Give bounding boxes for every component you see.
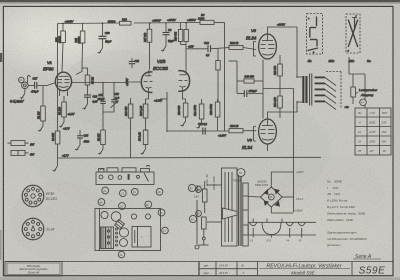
resistor R22 [229, 41, 256, 50]
resistor R15 [75, 24, 88, 69]
B+ rail wire [58, 23, 225, 132]
wire coupling node down [102, 83, 104, 95]
title strip top line [5, 261, 393, 263]
wire +320V vertical [293, 89, 295, 213]
notes text block [326, 180, 368, 248]
dashed box 4ohm option [307, 14, 323, 55]
wire bridge top [271, 172, 293, 187]
V6 screen bracket [254, 127, 257, 142]
tube V5 internals [261, 34, 275, 55]
ground under R21 [197, 123, 202, 129]
node A7 circle [360, 99, 367, 106]
resistor R4 on x57 [52, 131, 60, 144]
resistor R14 [175, 23, 189, 71]
ground under jack [20, 94, 25, 100]
wire splitter top [160, 98, 167, 100]
junction dots [62, 22, 298, 132]
wire bridge bottom [271, 207, 293, 213]
wire x57 drop [57, 24, 59, 159]
tube V2/3 label [153, 59, 168, 71]
wire V1 screen bend [76, 68, 82, 75]
wire primary leads [297, 77, 302, 102]
ground under R3 [59, 122, 64, 128]
switch S1 [199, 217, 209, 245]
ground bus divider [58, 156, 321, 159]
mains entry funnel [223, 208, 238, 219]
wire V3 cathode to R20 [183, 95, 186, 103]
transformer TR core [239, 170, 241, 246]
resistor R20 [178, 103, 188, 121]
heater bus bottom [248, 234, 316, 236]
tube V1 label [43, 60, 54, 72]
wire speaker output top [349, 57, 365, 108]
capacitor C11 [129, 58, 140, 68]
resistor R18 [125, 98, 133, 158]
ref circle A4 right [189, 215, 196, 222]
ref circle B7 with text [188, 184, 202, 191]
wire feedback horizontal [263, 88, 294, 90]
chassis main box [95, 209, 161, 251]
tube V2 half envelope [141, 72, 152, 93]
option labels row [308, 59, 372, 63]
resistor R23 [210, 99, 220, 131]
resistor R3 cathode [59, 96, 75, 122]
fuse F1 [202, 181, 207, 213]
tube V6 label [242, 138, 253, 151]
heater ticks [253, 228, 302, 238]
heater bus top [248, 221, 316, 223]
resistor R40 cathode [237, 76, 263, 84]
input jack A1 [19, 75, 31, 93]
wire cathode RC left link [229, 61, 238, 94]
tube V2 internals [144, 70, 153, 96]
trimmer capacitor C14 [98, 83, 106, 131]
resistor R1 [38, 86, 46, 127]
chassis ref circles row2 [98, 199, 165, 216]
wire V1 plate to coupling [72, 82, 103, 84]
ref circle A6 [196, 211, 202, 217]
wire cathode link V5-V6 [262, 60, 264, 119]
resistor R9 [198, 13, 214, 25]
wire V5 plate to +300V [268, 27, 298, 34]
legend resistor 1W [8, 141, 35, 147]
ground under C18 [83, 104, 88, 110]
dashed option link vertical [340, 72, 342, 109]
heater labels [250, 240, 302, 243]
wire bridge left input [248, 196, 260, 199]
chassis transformer right [132, 227, 151, 248]
ground under C15 [75, 145, 80, 151]
resistor R17 [144, 23, 152, 69]
transformer core [310, 74, 312, 106]
dashed option link [326, 71, 341, 73]
tube V3 half envelope [178, 71, 189, 92]
chassis holes column [116, 228, 118, 246]
resistor R21 [194, 99, 204, 123]
chassis transformer left [101, 227, 114, 249]
chassis sockets top view [101, 211, 151, 229]
resistor R19b [139, 130, 148, 149]
wire bridge right output [282, 196, 293, 198]
tube V1 internals [58, 76, 70, 96]
transformer secondary bars with taps [315, 77, 336, 110]
tube V5 label [246, 28, 257, 41]
socket label EF80 ECC83 [46, 192, 57, 201]
left scan edge mark [0, 53, 2, 62]
label Lautsprecher Ausgang [356, 88, 378, 97]
dashed box 25ohm option [346, 14, 360, 53]
resistor R24 [229, 124, 256, 133]
wire V6 cathode [267, 144, 269, 151]
stamp box Willi Studer [5, 262, 62, 277]
wire splitter bus [167, 92, 229, 131]
tube socket EF80/ECC83 [22, 185, 45, 207]
capacitor C17 [28, 77, 55, 94]
capacitor C13 [198, 122, 208, 135]
tube V3 internals [179, 70, 188, 95]
capacitor C12 [186, 41, 229, 102]
capacitor C10 [99, 23, 112, 48]
resistor R12 [120, 17, 132, 25]
chassis ref circles row1 [102, 187, 163, 197]
ground stub below bus [53, 158, 58, 172]
heater loop V2-3 wide [262, 222, 281, 234]
wire +300V down to transformer [296, 27, 298, 77]
resistor R67 output [351, 74, 356, 104]
mains plug board [207, 168, 237, 246]
ground under R19b [141, 149, 146, 155]
tube socket EL34 [22, 218, 45, 241]
capacitor C18 [84, 68, 98, 104]
resistor R19 [140, 104, 148, 130]
title box [258, 262, 351, 277]
heater top stubs [253, 219, 282, 223]
revision table [199, 262, 258, 277]
tube V6 internals [261, 119, 275, 140]
wire V2 cathode to R19 [146, 95, 149, 104]
V5 screen bracket [254, 42, 257, 57]
ground under R2 [98, 149, 103, 155]
tube V6 EL34 envelope [259, 119, 277, 144]
ground under R20 [181, 121, 186, 127]
wire to V2 grid [114, 81, 141, 84]
chassis electrolytics circles [119, 228, 128, 247]
capacitor C40 cathode [237, 90, 263, 97]
feedback divider R25 R26 [274, 55, 282, 118]
top scan edge dark strip [0, 0, 400, 2]
chassis ref circles bottom [118, 227, 168, 258]
resistor R16 [56, 24, 66, 73]
bottom scan edge [0, 277, 400, 280]
scan grain overlay [0, 0, 1, 1]
transformer T primary bars [302, 76, 307, 103]
ground under C10 [98, 48, 103, 54]
chassis rear strip [96, 166, 154, 185]
heater loop small 3 [298, 222, 305, 226]
ground under R1 [38, 126, 43, 132]
legend resistor 5W [11, 150, 35, 156]
label 300/250 [255, 179, 269, 187]
Serie A label [353, 254, 381, 260]
ground under C9 [161, 46, 166, 52]
ref circle B1 [194, 187, 201, 199]
tube V5 EL34 envelope [259, 34, 277, 59]
resistor R2 column [98, 130, 106, 149]
bridge rectifier Gr1 [260, 187, 282, 207]
heater loop small 2 [286, 222, 293, 226]
capacitor C15 [77, 130, 90, 145]
trimmer capacitor C16 [103, 83, 120, 113]
number box S59E [352, 262, 385, 277]
heater bus left end [247, 222, 249, 235]
heater loop small 1 [250, 222, 257, 226]
wire V6 plate to transformer [268, 102, 298, 119]
mains cord [195, 185, 199, 249]
transformer TR secondary [243, 183, 248, 246]
node TP circle [231, 169, 245, 183]
tube V1 EF80 envelope [55, 72, 71, 91]
capacitor C9 [163, 23, 175, 46]
value table [355, 108, 391, 155]
